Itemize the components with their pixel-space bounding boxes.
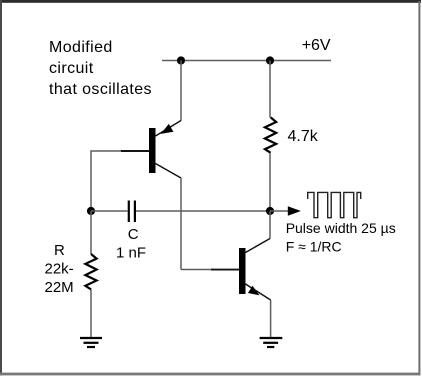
wire: Q1 emitter lead from rail: [180, 61, 182, 121]
resistor 4.7k zigzag: [265, 117, 276, 152]
wire: +6V top supply rail: [162, 60, 331, 62]
output arrowhead: [288, 206, 301, 215]
transistor Q1 (PNP) emitter diagonal: [156, 121, 182, 137]
ground under R: [80, 338, 102, 347]
svg-text:Pulse width 25 µs: Pulse width 25 µs: [286, 220, 396, 236]
svg-text:F ≈ 1/RC: F ≈ 1/RC: [286, 239, 342, 255]
svg-text:+6V: +6V: [302, 37, 331, 54]
wire: Q2 base wire: [181, 269, 214, 271]
svg-text:4.7k: 4.7k: [288, 128, 319, 145]
transistor Q2 (NPN) emitter diagonal: [246, 284, 271, 300]
node: junction dot at C / R / Q1 base: [87, 207, 95, 215]
transistor Q2 (NPN) base lead: [211, 269, 239, 271]
label Modified circuit that oscillates: [49, 39, 152, 98]
node: output junction dot: [266, 207, 274, 215]
wire: capacitor right plate to output node: [136, 210, 270, 212]
wire: junction to capacitor left plate: [91, 210, 128, 212]
wire: output arrow line: [270, 210, 289, 212]
svg-text:Modified: Modified: [49, 39, 113, 56]
svg-text:C: C: [128, 226, 139, 243]
wire: Q2 emitter drop to ground: [270, 300, 272, 338]
resistor R 22k-22M zigzag: [85, 254, 96, 289]
wire: 4.7k bottom lead to output node: [269, 153, 271, 211]
wire: R top lead: [90, 211, 92, 254]
transistor Q2 (NPN) collector diagonal: [246, 239, 271, 253]
wire: 4.7k top lead from rail: [269, 61, 271, 118]
transistor Q1 (PNP) collector diagonal: [156, 164, 182, 179]
capacitor C plates: [128, 201, 136, 223]
node: junction dot on rail above 4.7k resistor: [266, 56, 274, 64]
wire: Q1 collector drop to Q2 base: [180, 178, 182, 270]
transistor Q1 (PNP) base lead: [121, 150, 149, 152]
ground under Q2: [260, 338, 283, 347]
pulse waveform glyph: [308, 192, 361, 217]
svg-text:that oscillates: that oscillates: [49, 81, 152, 98]
svg-text:R: R: [54, 242, 65, 259]
wire: Q1 base wire to left rail: [91, 151, 124, 211]
transistor Q1 (PNP) emitter arrowhead: [161, 124, 174, 134]
transistor Q1 (PNP) base bar: [149, 128, 156, 173]
node: junction dot on rail above Q1 emitter: [177, 56, 185, 64]
svg-text:circuit: circuit: [49, 60, 94, 77]
wire: R bottom lead to ground: [90, 289, 92, 337]
svg-text:1 nF: 1 nF: [116, 244, 146, 261]
transistor Q2 (NPN) emitter arrowhead: [248, 286, 260, 296]
transistor Q2 (NPN) base bar: [239, 248, 246, 294]
svg-text:22M: 22M: [45, 279, 74, 296]
wire: Q2 collector lead from output node: [269, 211, 271, 239]
svg-text:22k-: 22k-: [45, 260, 74, 277]
